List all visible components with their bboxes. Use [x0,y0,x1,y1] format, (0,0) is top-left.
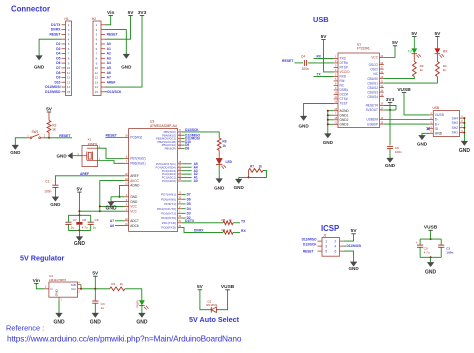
svg-text:R5: R5 [222,218,226,222]
svg-text:PB0(ICP): PB0(ICP) [165,147,176,151]
svg-text:H1: H1 [65,17,69,21]
svg-text:PD5(T1): PD5(T1) [164,202,176,206]
svg-text:11: 11 [95,71,98,75]
wire R1 to PWR LED [125,289,142,300]
svg-text:D13/SCK: D13/SCK [303,242,317,246]
svg-text:SW1: SW1 [32,130,39,134]
wire AVCC down to 5V rail [100,181,125,212]
svg-text:C8: C8 [82,218,86,222]
svg-text:1u: 1u [71,226,75,230]
svg-text:D6: D6 [56,61,60,65]
regulator U4 LM1117MPX [45,274,81,301]
svg-text:A6: A6 [110,224,114,228]
power 5V (above rail) [77,191,81,193]
svg-text:Connector: Connector [11,5,50,14]
svg-text:A7: A7 [110,219,114,223]
wire Vin to regulator [36,283,45,288]
svg-text:5V: 5V [76,186,83,192]
svg-text:D11/MOSI: D11/MOSI [347,244,362,248]
wire H1 pin4 to GND [39,39,61,55]
wire ICSP pin6 to GND [344,251,354,262]
svg-text:D3: D3 [56,47,60,51]
svg-text:GND: GND [214,186,225,191]
svg-text:1k: 1k [229,218,233,222]
svg-text:A3: A3 [107,56,111,60]
svg-text:GND: GND [459,148,471,154]
switch SW1 [27,130,46,139]
svg-text:CBUS4: CBUS4 [367,95,378,99]
ground GND (below LED) [216,179,223,184]
ground GND (shield) [461,141,468,146]
junction (cap bottom) [78,229,80,231]
wire LED to GND [218,165,220,179]
wire 3V3 to H2 pin14 [105,16,142,88]
svg-text:1k: 1k [229,228,233,232]
svg-text:GND: GND [417,141,428,146]
USB right pins (shield) [452,115,465,134]
svg-text:GND: GND [435,132,443,136]
svg-text:RESET: RESET [303,250,314,254]
svg-text:1: 1 [325,239,327,243]
svg-text:11: 11 [67,71,70,75]
ground GND (U3 GND pins) [108,202,115,207]
svg-text:SH4: SH4 [452,116,459,120]
svg-text:GND: GND [323,140,334,145]
wire to GND [430,257,432,262]
wire VCC to 5V [384,46,395,58]
wire 5V down to rail [78,192,80,215]
wire / net label D10 [182,141,185,143]
wire / net label A3 [182,170,192,172]
svg-text:TXD: TXD [340,57,347,61]
net label RX / wire to TXD [314,57,334,59]
net label A7 (ADC7) [115,220,125,222]
svg-text:GND: GND [234,185,245,190]
ground GND (regulator) [56,313,63,318]
svg-text:+: + [416,241,418,245]
svg-text:GND: GND [34,65,45,70]
svg-text:OSCO: OSCO [369,63,379,67]
capacitor C8 4.7u [76,215,88,230]
svg-text:GND: GND [10,150,21,155]
svg-text:RESET: RESET [59,134,71,138]
wire PD0/RXD [182,228,223,233]
svg-text:GND2: GND2 [340,118,349,122]
resistor R7 1k [249,164,264,172]
power 5V (above R2) [47,111,51,113]
junction (VUSB rail) [430,238,432,240]
svg-text:1u: 1u [93,226,97,230]
svg-text:D13/SCK: D13/SCK [185,128,199,132]
svg-text:PC2(ADC2): PC2(ADC2) [162,172,176,176]
svg-text:1k: 1k [52,128,56,132]
net label A6 (ADC6) [115,225,125,227]
svg-text:3V3: 3V3 [386,97,395,103]
svg-text:5V: 5V [321,34,328,40]
svg-text:C7: C7 [73,218,77,222]
wire / net label D11/MOSI [182,138,185,140]
svg-text:4.7u: 4.7u [424,251,430,255]
junction (VUSB caps GND) [430,256,432,258]
svg-text:3V3OUT: 3V3OUT [366,108,378,112]
svg-text:D1/TX: D1/TX [185,219,195,223]
USB left pins [429,112,445,135]
wire R4 to CBUS1 [384,77,438,84]
capacitor C1 100n [44,180,58,194]
junction (3V3OUT) [389,109,391,111]
svg-text:10: 10 [67,66,71,70]
ground GND (right of H2) [123,54,130,59]
svg-text:PB7(Xtal2): PB7(Xtal2) [130,157,145,161]
svg-text:5V: 5V [128,10,135,16]
net label D13/SCK (H2 pin 15) [105,91,108,93]
svg-text:3V3: 3V3 [138,10,147,16]
wire Vin to H2 pin1 [105,16,111,25]
U1 right pins [366,55,384,126]
svg-text:D13/SCK: D13/SCK [108,90,123,94]
wire shield pins join [463,118,465,141]
svg-text:5V: 5V [411,31,418,37]
wire TEST to GND [304,103,334,116]
svg-text:5V Regulator: 5V Regulator [20,254,65,263]
svg-text:D3: D3 [187,211,191,215]
svg-text:PD1(TXD): PD1(TXD) [162,221,176,225]
svg-text:PC6/Rst: PC6/Rst [130,136,142,140]
capacitor C7 1u [65,215,77,230]
svg-text:CTS#: CTS# [340,97,348,101]
power 5V (RX LED) [435,36,439,38]
junction AGND [327,110,329,112]
LED PWR (green) [135,300,148,310]
junction GND2 [327,119,329,121]
connector H2 [92,17,105,96]
power VUSB (above USB) [402,92,406,94]
power 3V3 (above H2) [140,15,144,17]
svg-text:GND: GND [385,163,396,168]
svg-text:SH3: SH3 [452,121,459,125]
svg-text:GND: GND [55,289,59,297]
svg-text:A7: A7 [107,76,111,80]
svg-text:GND: GND [121,65,132,70]
wire / net label D8 [182,147,185,149]
svg-text:D2: D2 [56,42,60,46]
svg-text:USB: USB [313,15,329,24]
junction SH1 [463,132,465,134]
svg-text:D0/RX: D0/RX [51,28,62,32]
capacitor C2 100n [438,239,453,257]
wire / net label D9 [182,144,185,146]
svg-text:USBDM: USBDM [366,118,378,122]
ground GND (left of R7) [235,179,242,184]
svg-text:GND: GND [130,200,138,204]
wire 5V rail [79,210,124,212]
no-connect X (ID pin) [427,127,430,130]
svg-text:PD3(INT1): PD3(INT1) [161,211,176,215]
ground GND (below C1) [52,197,59,202]
svg-text:AVCC: AVCC [130,179,139,183]
svg-text:1k: 1k [443,68,447,72]
svg-text:RX: RX [241,229,246,233]
ground GND (below caps) [76,237,83,242]
svg-text:VCC: VCC [130,209,137,213]
wire RESET to PC6 [106,137,125,139]
svg-text:A0: A0 [194,179,198,183]
svg-text:SH2: SH2 [452,126,459,130]
resistor R4 1k [436,54,447,77]
wire VUSB to USB pin1 [404,93,429,115]
net label TX / wire to RXD [314,75,334,77]
ground GND (left of SW1) [12,145,19,150]
U3 right pins [156,129,182,230]
svg-text:5V: 5V [392,40,399,46]
svg-text:In: In [50,287,53,291]
svg-text:GND: GND [90,319,102,325]
svg-text:PWR: PWR [135,300,139,308]
svg-text:ADC6: ADC6 [130,224,139,228]
power 5V (VCCIO) [321,39,325,41]
svg-text:Vin: Vin [107,10,114,16]
svg-text:PC1(ADC1): PC1(ADC1) [162,176,176,180]
wire cap rail top (VUSB) [420,238,441,240]
wire D13/SCK to R8 [182,132,220,138]
svg-text:12: 12 [95,76,99,80]
svg-text:RESET: RESET [106,134,118,138]
resistor R6 1k [222,228,234,235]
svg-text:GND: GND [348,266,359,271]
svg-text:1k: 1k [420,68,424,72]
svg-text:D4: D4 [187,207,191,211]
svg-text:VUSB: VUSB [221,284,235,290]
svg-text:AREF: AREF [107,80,116,84]
wire AGND group [328,111,334,134]
svg-text:A6: A6 [107,71,111,75]
svg-text:GND: GND [298,123,309,128]
svg-text:CBUS0: CBUS0 [367,77,378,81]
svg-text:PC5(ADC5 SCL): PC5(ADC5 SCL) [156,162,176,166]
wire C3 to GND [94,303,96,313]
wire / net label D12/MISO [182,134,185,136]
svg-text:5V Auto Select: 5V Auto Select [189,315,240,324]
LED (on PB5) [216,150,233,168]
svg-text:15: 15 [95,90,99,94]
op-amp U1 FT232RL body [338,42,380,127]
svg-text:CBUS3: CBUS3 [367,90,378,94]
power 5V (regulator out) [93,275,97,277]
wire 5V symbol down [94,276,96,289]
wire R2/SW1 junction to RESET [44,137,72,139]
svg-text:H2: H2 [92,17,96,21]
junction (VCC/AVCC) [99,205,101,207]
svg-text:1k: 1k [120,282,124,286]
power 3V3 [389,103,391,110]
svg-text:GND1: GND1 [340,113,349,117]
svg-text:D12/MISO: D12/MISO [302,237,317,241]
wire 3V3OUT to C9 [389,110,391,145]
svg-text:5V: 5V [351,228,358,234]
resistor R2 1k [47,112,57,138]
svg-text:D0/RX: D0/RX [194,229,204,233]
junction (5V out) [94,288,96,290]
svg-text:VCC: VCC [371,56,378,60]
wire AGND down [120,185,125,196]
wire / net label D4 [182,208,186,210]
svg-text:5: 5 [325,249,327,253]
svg-text:4.7u: 4.7u [82,226,88,230]
junction (5V rail) [78,210,80,212]
junction (AVCC rail) [99,210,101,212]
wire PWR LED to GND [141,306,143,313]
svg-text:100n: 100n [446,251,453,255]
svg-text:GND3: GND3 [340,122,349,126]
wire SW1 to GND [15,138,27,145]
svg-text:NC: NC [340,84,345,88]
wire / net label A0 [182,180,192,182]
wire D1 to VUSB [216,290,227,310]
svg-text:A1: A1 [107,47,111,51]
svg-text:1u: 1u [101,306,105,310]
svg-text:A5: A5 [107,66,111,70]
junction (regulator out) [80,288,82,290]
power 5V (above H2) [128,15,132,17]
op-amp U3 ATMEGA328P-AU body [129,120,178,232]
wire VUSB down [430,230,432,239]
ground GND (U1 GND pins) [324,134,331,139]
svg-text:PC3(ADC3): PC3(ADC3) [162,169,176,173]
svg-text:CBUS2: CBUS2 [367,86,378,90]
svg-text:15: 15 [67,90,71,94]
ground GND (ICSP) [350,262,357,267]
junction SH2 [463,127,465,129]
wire C4 to DTR# [308,62,334,64]
wire / net label D2 [182,217,186,219]
svg-text:GND: GND [425,270,437,276]
wire 3V3OUT [384,109,396,111]
junction (R2 / SW1 / RESET) [48,137,50,139]
ground GND (left of X1) [73,155,83,157]
svg-text:12: 12 [67,76,71,80]
power 5V (TX LED) [412,36,416,38]
svg-text:AREF: AREF [80,172,89,176]
svg-text:VCC: VCC [130,205,137,209]
svg-text:14: 14 [67,85,71,89]
svg-text:D4: D4 [56,52,60,56]
junction SH3 [463,122,465,124]
svg-text:PD2(INT0): PD2(INT0) [161,216,176,220]
svg-text:LED: LED [226,160,233,164]
wire junction to GND [239,176,249,178]
svg-text:10: 10 [95,66,99,70]
ground GND (below PWR LED) [139,313,146,318]
wire / net label D6 [182,198,186,200]
svg-text:VUSB: VUSB [435,113,445,117]
svg-text:RESET: RESET [107,32,118,36]
ground GND (below C9) [387,158,394,163]
svg-text:SH1: SH1 [452,131,459,135]
diode D1 SS1P3L [206,300,218,313]
wire RESET# [384,105,396,110]
capacitor C9 100n [387,146,402,154]
svg-text:D11/MOSI: D11/MOSI [45,85,60,89]
capacitor C5 4.7u [416,239,430,257]
wire / net label A4 [182,166,192,168]
LED RX (red) [435,37,449,58]
svg-text:USB: USB [433,106,440,110]
svg-text:PD4(XCK/T0): PD4(XCK/T0) [157,207,176,211]
svg-text:2: 2 [334,239,336,243]
svg-text:GND: GND [136,319,148,325]
svg-text:ICSP: ICSP [321,224,339,233]
wire GND pins [111,196,125,198]
svg-text:D-: D- [435,118,438,122]
svg-text:TX: TX [241,219,246,223]
wire VCC pin to vertical [100,205,125,207]
ground GND (below C3) [92,313,99,318]
resistor R3 1k [412,54,423,77]
svg-text:ADC7: ADC7 [130,219,139,223]
svg-text:100n: 100n [395,150,402,154]
svg-text:TEST: TEST [340,102,348,106]
wire AREF [55,176,124,185]
svg-text:VUSB: VUSB [397,87,411,93]
svg-text:13: 13 [67,80,71,84]
svg-text:RI#: RI# [340,79,345,83]
svg-text:D5: D5 [187,202,191,206]
svg-text:D+: D+ [435,122,439,126]
resistor R5 1k [222,218,234,225]
resistor R1 1k [110,282,125,291]
svg-text:LM1117MPX: LM1117MPX [49,278,66,282]
svg-text:RESET: RESET [282,59,294,63]
capacitor C4 100n [301,54,309,71]
svg-text:5V: 5V [46,106,53,112]
U1 left pins [334,56,350,127]
svg-text:5V: 5V [197,284,204,290]
svg-text:PD7(AIN1): PD7(AIN1) [161,193,176,197]
svg-text:A2: A2 [107,52,111,56]
wire X1 pin1 to PB6 [98,161,125,164]
svg-text:D7: D7 [187,193,191,197]
junction SH4 [463,117,465,119]
svg-text:5V: 5V [92,271,99,277]
resistor R8 1k [217,138,226,150]
wire USBDP to D+ [384,123,429,125]
svg-text:D9: D9 [56,76,60,80]
wire C1 to GND [54,187,56,196]
junction GND1 [327,114,329,116]
svg-text:GND: GND [105,206,117,212]
wire / net label A5 [182,163,192,165]
ground GND (TEST) [300,116,307,121]
junction (AGND/GND) [119,196,121,198]
svg-text:Reference :: Reference : [6,324,44,333]
svg-text:AREF: AREF [130,174,139,178]
ground GND (USB) [419,135,426,140]
svg-text:VCCIO: VCCIO [340,70,351,74]
svg-text:D8: D8 [185,147,189,151]
svg-text:NC: NC [373,72,378,76]
svg-text:ATMEGA328P-AU: ATMEGA328P-AU [150,124,178,128]
svg-text:6: 6 [334,249,336,253]
ground GND (VUSB caps) [427,262,434,267]
wire / net label D7 [182,193,186,195]
svg-text:13: 13 [95,80,99,84]
crystal X1 16MHz [77,138,100,167]
svg-text:D6: D6 [187,197,191,201]
svg-text:DSR#: DSR# [340,88,349,92]
wire PD1/TXD [182,222,223,224]
wire R5 to TX [233,222,240,224]
power 5V (U1 VCC) [393,45,397,47]
